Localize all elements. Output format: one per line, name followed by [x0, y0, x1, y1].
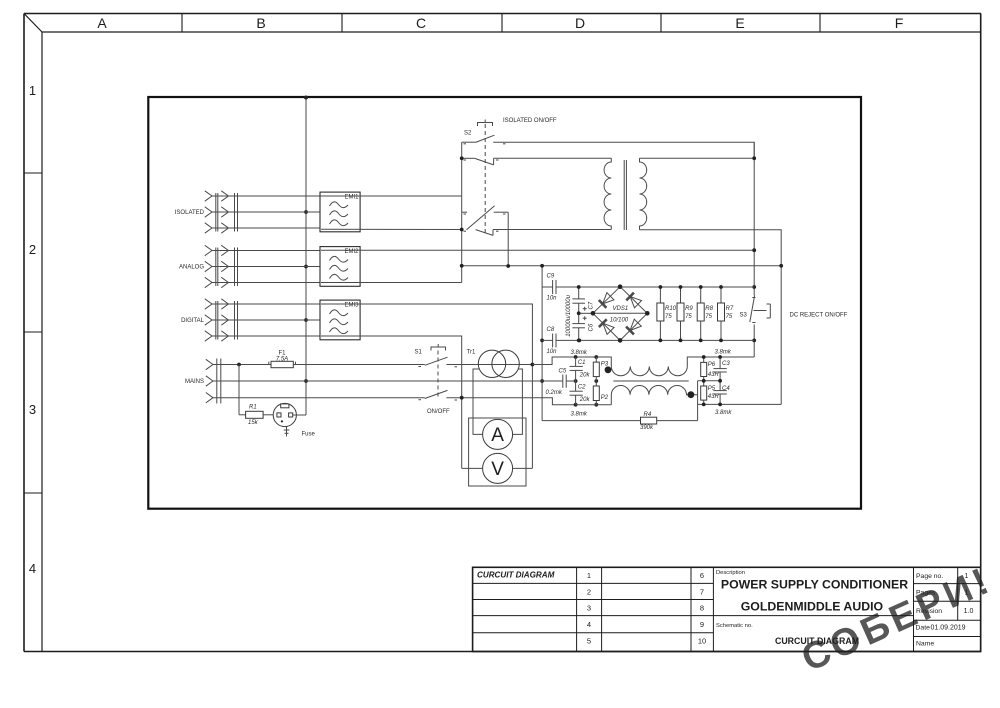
meter enclosure box	[469, 418, 526, 486]
title block middle divider	[713, 615, 913, 617]
wire: S3 column vertical	[753, 142, 755, 357]
wire: mains neutral row	[213, 380, 563, 382]
svg-text:Fuse: Fuse	[302, 432, 316, 438]
label DIGITAL	[181, 318, 205, 324]
connector ISOLATED (3-pin)	[205, 191, 238, 233]
diode D (bridge top-left)	[599, 293, 614, 308]
capacitor C3	[713, 357, 726, 381]
watermark	[796, 559, 999, 680]
switch S1 gang link (dashed)	[431, 344, 446, 397]
node: bottom winding phase dot	[688, 391, 695, 398]
wire: mains line row	[213, 364, 425, 366]
title cell CURCUIT DIAGRAM	[477, 570, 555, 579]
title block row numbers 1-5	[587, 571, 591, 645]
node: rail dots	[577, 285, 723, 342]
wire: V meter row	[462, 467, 533, 469]
wire: S2 pole2 throw to primary top	[494, 157, 612, 159]
transformer T (isolation) primary winding	[604, 158, 611, 229]
wire: vertical bus from box top to lamp node	[305, 97, 307, 415]
title block outer frame	[473, 567, 981, 651]
wire: analog rows to EMI2	[212, 251, 320, 283]
svg-text:2: 2	[587, 587, 591, 596]
svg-text:C5: C5	[559, 369, 567, 375]
svg-text:E: E	[735, 15, 744, 31]
switch S1 pole 2 (earth)	[419, 390, 458, 400]
svg-text:9: 9	[700, 620, 704, 629]
node: filter top rail dots	[574, 355, 599, 407]
node: filter right column dots	[702, 355, 722, 406]
label Description	[716, 570, 745, 576]
label C5	[559, 369, 567, 375]
label Page no.	[916, 573, 969, 580]
svg-text:C7: C7	[589, 301, 595, 309]
label ANALOG	[179, 265, 204, 271]
bridge rectifier VDS1	[593, 287, 647, 341]
svg-text:MAINS: MAINS	[185, 379, 204, 385]
capacitor C5 (series, neutral)	[563, 375, 576, 388]
wire: EMI3 top output	[321, 304, 532, 468]
svg-text:C3: C3	[722, 361, 730, 367]
diode D (bridge bottom-left)	[599, 319, 614, 334]
value 3.8mk (bottom-right)	[715, 410, 732, 416]
svg-text:C8: C8	[547, 327, 555, 333]
svg-text:DIGITAL: DIGITAL	[181, 318, 205, 324]
label S3	[740, 313, 748, 319]
svg-text:CURCUIT DIAGRAM: CURCUIT DIAGRAM	[477, 570, 555, 579]
value 20k (P2)	[579, 397, 591, 403]
svg-text:Tr1: Tr1	[467, 350, 476, 356]
wire: east riser of filter	[697, 381, 699, 421]
svg-text:6: 6	[700, 571, 704, 580]
capacitor C6 (electrolytic, bottom)	[572, 313, 586, 340]
svg-text:R8: R8	[705, 306, 713, 312]
svg-text:3.8mk: 3.8mk	[715, 410, 732, 416]
svg-text:VDS1: VDS1	[613, 306, 629, 312]
fuse F1	[269, 350, 296, 367]
svg-text:3: 3	[29, 402, 36, 417]
svg-text:C6: C6	[589, 323, 595, 331]
svg-text:7.5A: 7.5A	[276, 356, 288, 362]
svg-text:ISOLATED ON/OFF: ISOLATED ON/OFF	[503, 118, 557, 124]
svg-text:R1: R1	[249, 404, 257, 410]
lamp (fuse indicator)	[273, 403, 315, 437]
connector ANALOG (3-pin)	[205, 245, 238, 287]
label C1	[578, 360, 586, 366]
wire: earth row to blocker	[446, 398, 575, 405]
meter A	[483, 419, 513, 449]
label C3	[722, 361, 730, 367]
label C8	[547, 327, 555, 333]
svg-text:C: C	[416, 15, 426, 31]
transformer T core	[624, 160, 626, 230]
wire: bridge top rail	[542, 286, 754, 288]
svg-text:5: 5	[587, 637, 591, 646]
switch S2 pole 4	[464, 230, 499, 236]
capacitor C7 (electrolytic, top)	[572, 287, 586, 313]
svg-text:R4: R4	[644, 412, 652, 418]
svg-text:10n: 10n	[547, 349, 558, 355]
svg-text:A: A	[97, 15, 107, 31]
wire: lamp to bus	[293, 414, 306, 416]
svg-text:POWER SUPPLY CONDITIONER: POWER SUPPLY CONDITIONER	[721, 577, 908, 591]
svg-text:Name: Name	[916, 641, 934, 648]
wire: S2 pole3 throw drop	[507, 212, 509, 266]
wire: filter bottom rail (right)	[698, 403, 782, 405]
value 3.8mk (bottom-left)	[571, 412, 588, 418]
svg-text:20k: 20k	[579, 397, 591, 403]
connector DIGITAL (3-pin)	[205, 299, 238, 341]
svg-text:43R: 43R	[708, 372, 720, 378]
svg-text:Description: Description	[716, 570, 745, 576]
title block row numbers 6-10	[698, 571, 706, 645]
label C4	[722, 386, 730, 392]
wire: DC-blocker west vertical	[541, 266, 543, 421]
capacitor C4	[713, 381, 726, 405]
value 3.8mk (top-right)	[715, 350, 732, 356]
wire: EMI2 bottom output	[321, 282, 462, 284]
value 10n (C9)	[547, 295, 558, 301]
svg-text:20k: 20k	[579, 373, 591, 379]
node: junction dots right column	[752, 156, 783, 342]
label Name	[916, 641, 934, 648]
svg-text:F: F	[895, 15, 904, 31]
wire: secondary bottom to east riser	[640, 230, 782, 405]
schematic outline box	[148, 97, 861, 509]
switch S1 pole 1 (line)	[419, 357, 458, 367]
title block left table grid	[473, 567, 714, 651]
wire: bridge bottom rail	[542, 339, 754, 341]
wire: capacitor midpoint to bridge left corner	[579, 312, 593, 314]
value 10n (C8)	[547, 349, 558, 355]
label ISOLATED	[175, 210, 205, 216]
svg-text:2: 2	[29, 242, 36, 257]
inductor core line	[613, 380, 688, 382]
node: west vertical dots	[540, 264, 544, 383]
svg-text:S1: S1	[415, 350, 423, 356]
frame column dividers	[182, 14, 820, 33]
label C2	[578, 385, 586, 391]
label MAINS	[185, 379, 204, 385]
svg-text:1: 1	[29, 83, 36, 98]
title POWER SUPPLY CONDITIONER	[721, 577, 908, 591]
transformer T secondary winding	[640, 158, 647, 230]
node: bus junction dots	[304, 96, 308, 383]
frame row numbers	[29, 83, 36, 576]
svg-text:390k: 390k	[640, 425, 654, 431]
wire: line row step-up into filter	[532, 357, 611, 365]
svg-text:75: 75	[726, 314, 733, 320]
svg-text:ON/OFF: ON/OFF	[427, 409, 450, 415]
resistor R9	[677, 287, 693, 340]
svg-text:R7: R7	[726, 306, 734, 312]
svg-text:7: 7	[700, 587, 704, 596]
wire: EMI2 top output to transformer node	[321, 249, 754, 251]
svg-text:R9: R9	[685, 306, 693, 312]
wire: filter mid row (right)	[698, 380, 721, 382]
label C9	[547, 274, 555, 280]
wire: S1 pole1 to Tr1 and line node	[446, 364, 552, 366]
resistor P6	[701, 357, 720, 381]
svg-text:75: 75	[705, 314, 712, 320]
wire: EMI1 top output riser	[320, 195, 462, 197]
svg-text:Schematic no.: Schematic no.	[716, 623, 753, 629]
inductor L top winding (coupled)	[596, 357, 754, 376]
EMI filter EMI2	[320, 247, 360, 287]
svg-text:3.8mk: 3.8mk	[571, 412, 588, 418]
svg-text:43R: 43R	[708, 394, 720, 400]
resistor R8	[697, 287, 713, 340]
node: cap stack dots	[577, 285, 581, 342]
node: bridge corner dots	[591, 284, 650, 342]
svg-text:A: A	[491, 425, 504, 446]
svg-text:V: V	[491, 459, 504, 480]
label Schematic no.	[716, 623, 753, 629]
label VDS1	[613, 306, 629, 312]
svg-text:75: 75	[665, 314, 672, 320]
svg-text:10: 10	[698, 637, 706, 646]
svg-text:DC REJECT ON/OFF: DC REJECT ON/OFF	[790, 313, 848, 319]
value 10000u/10000u (rotated)	[566, 294, 572, 336]
node: S1/V-row junction dots	[460, 363, 534, 400]
wire: S2 pole4 throw to primary bottom	[493, 229, 611, 231]
resistor P3	[593, 357, 609, 381]
value 3.8mk (top-left)	[571, 350, 588, 356]
label DC REJECT ON/OFF	[790, 313, 848, 319]
resistor R10	[657, 287, 677, 340]
svg-text:75: 75	[685, 314, 692, 320]
svg-text:ISOLATED: ISOLATED	[175, 210, 205, 216]
current transformer Tr1	[467, 350, 520, 378]
svg-text:10n: 10n	[547, 295, 558, 301]
svg-text:01.09.2019: 01.09.2019	[931, 625, 966, 632]
resistor R4	[542, 412, 698, 431]
node: top winding phase dot	[605, 366, 612, 373]
svg-text:C4: C4	[722, 386, 730, 392]
meter V	[483, 453, 513, 483]
wire: S2 pole1 throw bypass line	[493, 142, 754, 158]
EMI filter EMI3	[320, 300, 360, 340]
wire: digital rows to EMI3	[212, 304, 320, 336]
svg-text:8: 8	[700, 603, 704, 612]
wire: S2 common vertical	[461, 142, 463, 282]
wire: Tr1 secondary loop	[473, 369, 522, 434]
resistor P5	[701, 381, 720, 405]
switch S2 pole 1	[462, 135, 506, 144]
svg-text:3.8mk: 3.8mk	[715, 350, 732, 356]
wire: EMI1 bottom output	[321, 228, 462, 230]
subtitle CURCUIT DIAGRAM	[775, 636, 859, 646]
svg-text:ANALOG: ANALOG	[179, 265, 204, 271]
EMI filter EMI1	[320, 192, 360, 232]
inductor L bottom winding (coupled)	[611, 385, 697, 404]
resistor R1	[239, 365, 273, 426]
svg-text:15k: 15k	[248, 420, 259, 426]
label Date	[916, 625, 966, 632]
switch S2 pole 3	[462, 206, 509, 230]
value 20k (P3)	[579, 373, 591, 379]
svg-text:4: 4	[29, 561, 36, 576]
title block right grid	[914, 567, 982, 651]
switch S2 pole 2	[462, 158, 499, 165]
svg-text:4: 4	[587, 620, 591, 629]
node: line row tap dot	[237, 363, 241, 367]
svg-text:S3: S3	[740, 313, 748, 319]
svg-text:C9: C9	[547, 274, 555, 280]
svg-text:R10: R10	[665, 306, 677, 312]
capacitor C2	[570, 381, 583, 405]
wire: filter bottom rail (left)	[576, 404, 612, 406]
wire: mains earth row	[213, 397, 425, 399]
svg-text:P6: P6	[708, 362, 716, 368]
svg-text:0.2mk: 0.2mk	[546, 390, 563, 396]
svg-text:1: 1	[587, 571, 591, 580]
title GOLDENMIDDLE AUDIO	[741, 600, 884, 614]
svg-text:C1: C1	[578, 360, 586, 366]
svg-text:10000u/10000u: 10000u/10000u	[566, 294, 572, 336]
capacitor C9 (series in top rail)	[553, 280, 556, 294]
svg-text:B: B	[256, 15, 265, 31]
svg-text:P2: P2	[601, 395, 609, 401]
svg-text:3.8mk: 3.8mk	[571, 350, 588, 356]
label S2	[464, 131, 472, 137]
label Revision	[916, 608, 973, 615]
svg-text:3: 3	[587, 603, 591, 612]
capacitor C8 (series in bottom rail)	[553, 334, 556, 348]
value 10/100	[610, 317, 629, 323]
diode D (bridge bottom-right)	[626, 319, 641, 334]
label C7 (rotated)	[589, 301, 595, 309]
resistor R7	[718, 287, 734, 340]
svg-text:S2: S2	[464, 131, 472, 137]
label Pages	[916, 590, 969, 597]
frame column letters	[97, 15, 903, 31]
label ON/OFF	[427, 409, 450, 415]
wire: secondary return line	[462, 265, 782, 267]
wire: isolated rows to EMI1	[212, 196, 320, 228]
svg-text:D: D	[575, 15, 585, 31]
wire: secondary top to S3 column	[640, 157, 755, 159]
value 0.2mk	[546, 390, 563, 396]
svg-text:10/100: 10/100	[610, 317, 629, 323]
frame row dividers	[24, 173, 42, 493]
label S1	[415, 350, 423, 356]
resistor P2	[593, 381, 609, 405]
switch S3 (DC reject)	[750, 296, 771, 323]
diode D (bridge top-right)	[626, 293, 641, 308]
svg-text:C2: C2	[578, 385, 586, 391]
label ISOLATED ON/OFF	[503, 118, 557, 124]
label C6 (rotated)	[589, 323, 595, 331]
switch S2 gang link (dashed)	[478, 120, 493, 237]
node: S2 junction dots	[460, 156, 510, 267]
capacitor C1	[570, 357, 583, 381]
connector MAINS (3-pin)	[206, 359, 221, 404]
wire: EMI3 bottom output	[321, 336, 462, 468]
